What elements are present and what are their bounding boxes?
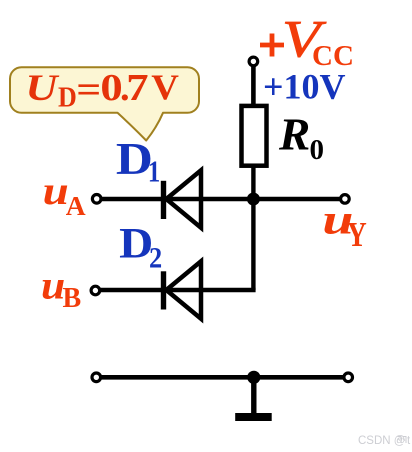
terminal uY xyxy=(341,195,350,204)
terminal uB xyxy=(91,286,100,295)
svg-text:V: V xyxy=(151,68,179,108)
terminal uA xyxy=(92,195,101,204)
svg-text:Y: Y xyxy=(347,215,367,254)
label +VCC xyxy=(260,9,354,72)
svg-text:+10V: +10V xyxy=(263,67,346,107)
terminal ground left xyxy=(92,373,101,382)
svg-text:0: 0 xyxy=(310,134,325,166)
svg-text:B: B xyxy=(63,283,82,314)
ground bar xyxy=(235,413,272,421)
svg-text:1: 1 xyxy=(148,155,160,189)
wire uB row xyxy=(95,288,255,292)
terminal VCC xyxy=(249,57,258,66)
terminal ground right xyxy=(344,373,353,382)
wire uA row xyxy=(97,197,345,201)
diode D1 xyxy=(164,170,202,227)
wire resistor to node and down to D2 elbow xyxy=(251,166,255,290)
svg-text:7: 7 xyxy=(126,67,148,109)
node junction dot xyxy=(247,193,260,206)
resistor R0 xyxy=(242,106,267,166)
svg-text:U: U xyxy=(25,67,60,108)
watermark CSDN xyxy=(358,435,411,447)
svg-text:D: D xyxy=(119,220,153,268)
diode D2 xyxy=(164,261,202,318)
svg-text:D: D xyxy=(58,82,77,113)
label UD = 0.7 V xyxy=(25,67,179,113)
ground junction dot xyxy=(247,371,260,384)
svg-text:2: 2 xyxy=(149,242,162,275)
callout bubble UD=0.7V xyxy=(10,67,199,140)
wire VCC to resistor xyxy=(251,66,256,107)
ground wire xyxy=(96,375,348,380)
ground stub xyxy=(251,377,256,413)
svg-text:R: R xyxy=(278,109,310,159)
svg-text:=: = xyxy=(76,68,101,111)
svg-text:A: A xyxy=(66,190,86,221)
